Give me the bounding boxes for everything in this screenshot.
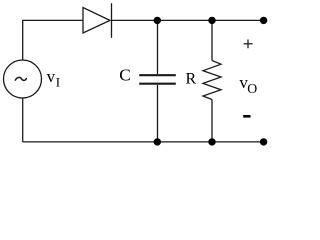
svg-text:I: I <box>56 75 60 90</box>
svg-text:v: v <box>47 67 56 86</box>
svg-text:C: C <box>119 66 131 85</box>
svg-text:O: O <box>247 81 257 96</box>
svg-text:R: R <box>186 70 197 87</box>
